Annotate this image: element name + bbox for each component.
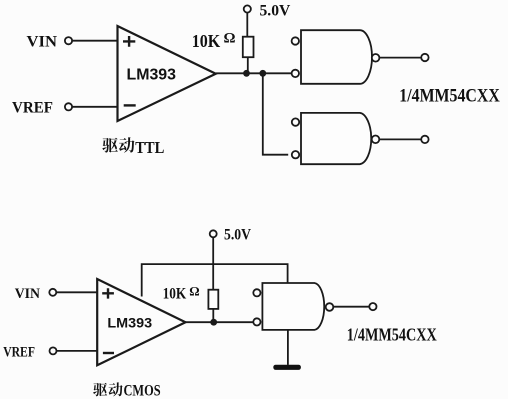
pin input 2 of G1: [292, 70, 299, 77]
junction node C (bottom output node): [210, 319, 217, 326]
NAND gate G1 1/4MM54CXX (top): [301, 30, 372, 84]
terminal VREF (top): [65, 103, 72, 110]
caption 驱动CMOS (bottom): [93, 382, 122, 396]
wire VIN to op-amp U2 + input: [56, 291, 97, 293]
wire resistor R2 to output node: [212, 309, 214, 322]
wire op-amp U2 output to gate G3 input: [186, 321, 254, 323]
pin input 1 of G2 (open): [292, 118, 299, 125]
svg-text:TTL: TTL: [135, 138, 164, 157]
terminal VIN (bottom): [49, 289, 56, 296]
wire VREF to op-amp U2 - input: [57, 350, 98, 352]
pin - (bottom inverting input marker): [103, 352, 114, 354]
NAND gate G3 1/4MM54CXX (bottom): [262, 283, 324, 330]
op-amp U2 LM393 (bottom comparator): [97, 279, 185, 365]
terminal VREF (bottom): [50, 347, 57, 354]
svg-text:Ω: Ω: [224, 30, 236, 46]
inversion bubble of G2: [372, 136, 380, 144]
wire 5.0V to resistor R1: [246, 13, 248, 37]
wire gate G3 VSS to ground: [287, 330, 289, 365]
wire supply rail (op-amp V+ to 5.0V line to gate G3 VDD): [142, 264, 288, 296]
inversion bubble of G1: [372, 54, 380, 62]
wire G3 output: [333, 306, 369, 308]
svg-text:1/4MM54CXX: 1/4MM54CXX: [399, 85, 500, 106]
svg-text:VREF: VREF: [12, 99, 53, 116]
NAND gate G2 1/4MM54CXX (second, top circuit): [301, 113, 371, 164]
svg-text:10K: 10K: [163, 286, 187, 303]
op-amp U1 LM393 (top comparator): [118, 26, 216, 121]
svg-text:LM393: LM393: [107, 315, 152, 331]
pin input 1 of G1 (open): [292, 37, 299, 44]
svg-text:5.0V: 5.0V: [260, 2, 291, 19]
pin - (top inverting input marker): [124, 104, 136, 106]
inversion bubble of G3: [326, 303, 334, 311]
terminal G1 output: [421, 54, 428, 61]
terminal G3 output: [369, 303, 376, 310]
svg-text:5.0V: 5.0V: [224, 227, 252, 244]
terminal VIN (top): [65, 37, 72, 44]
wire op-amp output to gate G1 input: [216, 72, 292, 74]
pin + (top non-inverting input marker): [123, 36, 135, 47]
svg-text:Ω: Ω: [189, 283, 199, 298]
svg-text:1/4MM54CXX: 1/4MM54CXX: [347, 324, 437, 344]
ground: [273, 365, 301, 370]
junction node A (resistor to output wire): [243, 70, 250, 77]
pin input 2 of G3: [253, 318, 260, 325]
wire VREF to op-amp - input: [72, 106, 117, 108]
wire G2 output: [379, 138, 421, 140]
terminal 5.0V (top): [244, 5, 251, 12]
pin + (bottom non-inverting input marker): [102, 288, 114, 298]
wire VIN to op-amp + input: [72, 40, 117, 42]
pin input 2 of G2: [292, 151, 299, 158]
terminal G2 output: [421, 136, 428, 143]
svg-text:CMOS: CMOS: [124, 382, 161, 399]
svg-text:LM393: LM393: [127, 67, 177, 84]
terminal 5.0V (bottom): [210, 230, 217, 237]
wire resistor R1 to output node: [247, 57, 249, 73]
svg-text:VIN: VIN: [15, 286, 40, 302]
svg-text:VIN: VIN: [27, 33, 58, 50]
pin input 1 of G3 (open): [253, 289, 260, 296]
resistor R1 10K pull-up (top): [243, 37, 254, 58]
wire branch node B down to gate G2 input: [263, 73, 288, 154]
svg-text:10K: 10K: [192, 31, 221, 51]
svg-text:VREF: VREF: [3, 345, 35, 361]
caption 驱动TTL (top): [102, 137, 134, 152]
wire 5.0V down to resistor R2: [212, 237, 214, 289]
resistor R2 10K pull-up (bottom): [208, 290, 218, 309]
junction node B (branch to gate G2): [259, 70, 266, 77]
wire G1 output: [379, 57, 421, 59]
